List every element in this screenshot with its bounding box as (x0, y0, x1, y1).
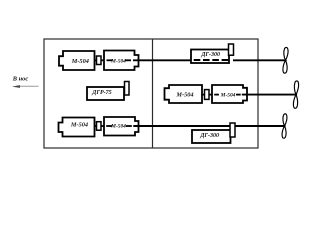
svg-text:М-504: М-504 (70, 122, 88, 129)
svg-text:ДГР-75: ДГР-75 (91, 90, 111, 96)
svg-text:В нос: В нос (12, 75, 29, 82)
svg-text:М-504: М-504 (71, 58, 89, 65)
svg-text:М-504: М-504 (175, 91, 193, 98)
svg-text:М-504: М-504 (220, 93, 236, 99)
svg-text:ДГ-300: ДГ-300 (199, 133, 219, 139)
svg-text:ДГ-300: ДГ-300 (200, 52, 220, 58)
svg-text:М-504: М-504 (110, 124, 126, 130)
svg-text:М-504: М-504 (110, 59, 126, 65)
